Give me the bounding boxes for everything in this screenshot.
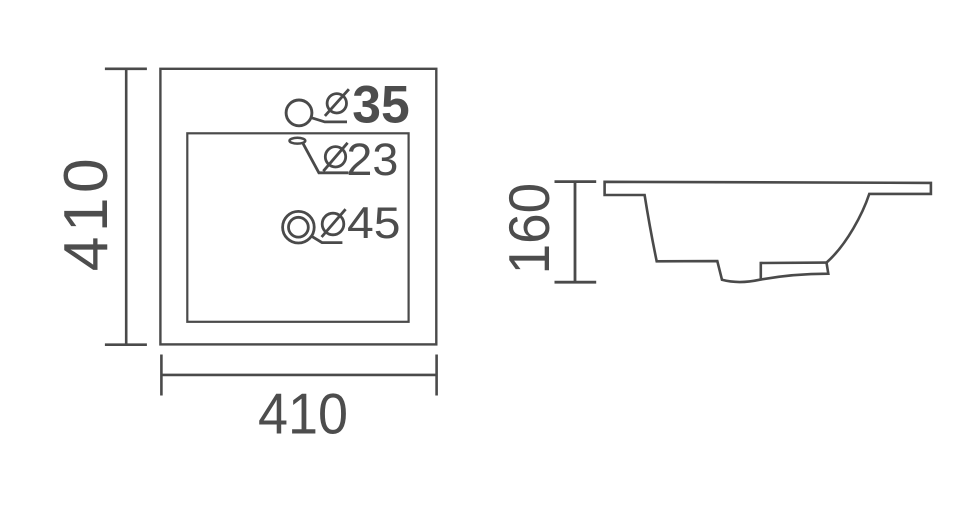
- drain hole outer circle: [283, 211, 315, 243]
- svg-text:45: 45: [347, 197, 401, 248]
- leader line faucet hole: [311, 118, 347, 122]
- side view basin section outline: [605, 182, 931, 282]
- leader line overflow hole: [303, 143, 349, 172]
- diameter symbol for 23: [323, 143, 347, 171]
- diameter symbol for 45: [322, 209, 346, 237]
- svg-text:160: 160: [498, 183, 562, 275]
- dimension line 160 (vertical): [555, 182, 597, 283]
- faucet hole circle: [286, 100, 312, 126]
- dimension line 410 (bottom, horizontal): [161, 355, 436, 396]
- basin inner bowl rectangle (top view): [187, 133, 408, 321]
- svg-text:410: 410: [52, 158, 121, 271]
- basin outer rim rectangle (top view): [160, 69, 436, 345]
- svg-text:35: 35: [352, 76, 410, 135]
- overflow hole ellipse: [290, 138, 306, 144]
- drain hole inner circle: [289, 217, 309, 237]
- diameter symbol for 35: [325, 89, 349, 116]
- leader line drain hole: [311, 236, 343, 243]
- svg-text:410: 410: [258, 383, 348, 447]
- svg-text:23: 23: [346, 134, 398, 185]
- dimension line 410 (left, vertical): [105, 69, 147, 345]
- drain boss platform (side view): [761, 263, 827, 279]
